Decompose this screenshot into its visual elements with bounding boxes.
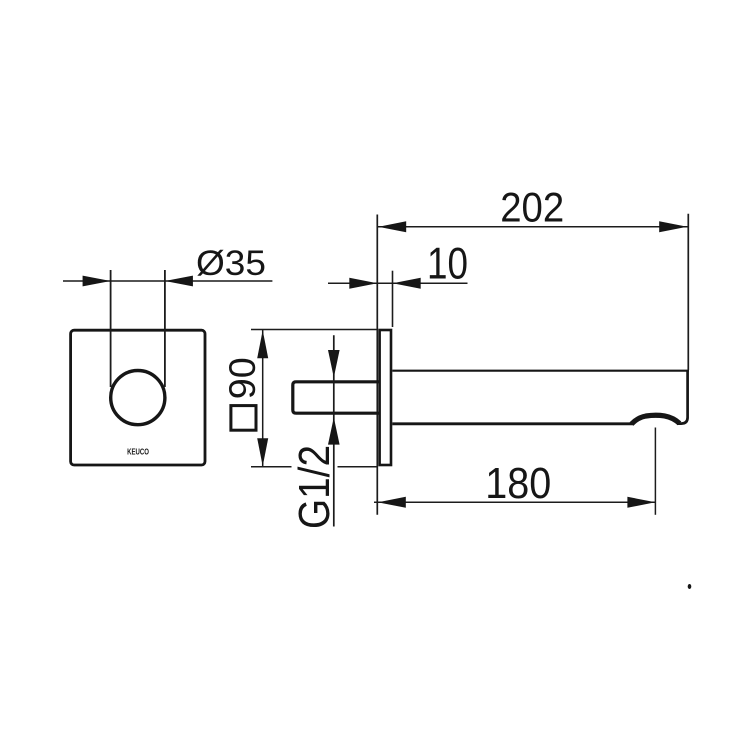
G1/2 lower arrow (328, 417, 340, 444)
180 dimension line (374, 501, 656, 503)
wall face extension line (376, 215, 378, 515)
stray dot mark (688, 584, 692, 589)
spout top outline (392, 370, 689, 372)
svg-text:G1/2: G1/2 (290, 445, 339, 529)
escutcheon plate front view (71, 330, 205, 465)
202 left arrow (378, 221, 406, 232)
10 right arrow (393, 278, 421, 289)
spout bottom outline (392, 422, 633, 425)
svg-text:202: 202 (500, 184, 564, 231)
90 up arrow (257, 330, 268, 358)
202 right arrow (659, 221, 687, 232)
svg-text:90: 90 (222, 357, 263, 399)
202 right extension line (687, 214, 689, 370)
G1/2 inlet stub (293, 382, 379, 413)
plate back extension line (392, 271, 394, 327)
white mask behind G1/2 label (292, 444, 338, 529)
90 dimension line (262, 330, 264, 467)
180 right extension line (aerator centre) (654, 428, 656, 515)
svg-text:Ø35: Ø35 (196, 243, 266, 283)
202 dimension line (378, 226, 689, 228)
90 top extension line (251, 329, 378, 331)
arrow right of diameter dim (165, 276, 193, 287)
svg-text:180: 180 (485, 460, 551, 508)
10 left arrow (349, 278, 377, 289)
svg-text:KEUCO: KEUCO (127, 447, 149, 457)
180 left arrow (378, 497, 406, 508)
extension line left of circle (110, 270, 112, 387)
dimension line diameter 35 (63, 280, 272, 282)
extension line right of circle (164, 270, 166, 387)
square symbol (231, 406, 256, 431)
90 bottom extension line (251, 466, 378, 468)
svg-text:10: 10 (427, 240, 468, 289)
arrow left of diameter dim (83, 276, 111, 287)
escutcheon plate side view (380, 330, 391, 465)
10 dimension line (328, 282, 468, 284)
spout end outline (677, 371, 688, 424)
spout circle front view (111, 371, 165, 425)
180 right arrow (627, 497, 655, 508)
G1/2 upper arrow (328, 350, 340, 378)
90 down arrow (257, 438, 268, 466)
aerator bump (632, 415, 680, 424)
G1/2 leader line (333, 335, 335, 526)
